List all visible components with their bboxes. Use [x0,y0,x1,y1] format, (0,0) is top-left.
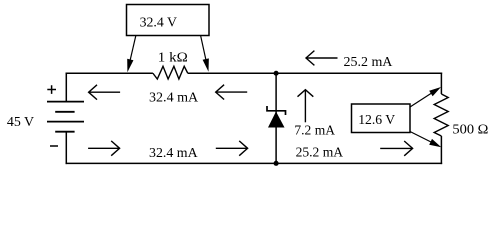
svg-text:7.2 mA: 7.2 mA [294,123,335,138]
svg-text:500 Ω: 500 Ω [452,122,488,137]
svg-text:45 V: 45 V [7,115,34,130]
pointer arrow from 32.4 V box to left end of R1 [127,36,136,72]
load resistor Rload 500 Ω zigzag [434,94,448,136]
svg-text:32.4 mA: 32.4 mA [149,146,198,161]
junction node dot (bottom of zener branch) [274,161,279,166]
pointer arrow from 12.6 V box to bottom of load resistor [410,132,441,148]
current arrow right on bottom wire, left of label [88,141,120,156]
svg-text:25.2 mA: 25.2 mA [344,55,394,70]
battery long plate 3 [47,121,84,123]
zener diode D1: cathode bar with bent tails [267,106,286,115]
current arrow right on bottom wire near load [380,141,412,156]
zener diode branch wire [275,73,277,163]
battery 45 V: top stub [65,73,67,102]
pointer arrow from 32.4 V box to right end of R1 [201,36,209,72]
resistor R1 zigzag [153,66,188,79]
battery bottom stub [65,132,67,164]
battery plus sign [47,85,56,94]
current arrow left on top wire, right of label [216,85,248,100]
battery short plate 2 [55,111,74,113]
zener diode D1: anode triangle [268,112,285,128]
svg-text:25.2 mA: 25.2 mA [296,146,344,161]
battery minus sign [50,145,58,147]
svg-text:32.4 V: 32.4 V [140,15,177,30]
current arrow left above top wire (right section) [306,51,338,66]
wire top segment: battery positive to R1 [66,72,153,74]
wire bottom rail [66,162,443,164]
battery long plate 1 [47,101,84,103]
wire top segment: R1 to top-right corner [188,72,442,74]
voltmeter reading box 32.4 V [127,5,210,36]
battery short plate 4 [55,131,74,133]
wire right branch upper stub [440,73,442,95]
current arrow up (zener branch) [298,90,314,123]
wire right branch lower stub [440,136,442,164]
current arrow (electron flow) left on top wire, left of label [89,85,121,100]
current arrow right on bottom wire, right of label [216,141,248,156]
junction node dot (top of zener branch) [274,71,279,76]
svg-text:12.6 V: 12.6 V [358,113,395,128]
svg-text:32.4 mA: 32.4 mA [149,90,199,105]
pointer arrow from 12.6 V box to top of load resistor [410,87,441,107]
voltmeter reading box 12.6 V [352,104,411,133]
svg-text:1 kΩ: 1 kΩ [158,51,188,66]
